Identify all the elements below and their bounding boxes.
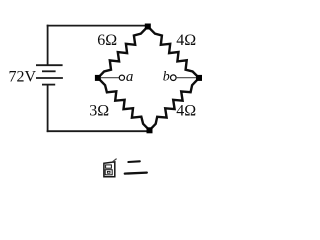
wire left lower [47, 85, 49, 133]
resistor 6ohm top-left [98, 27, 148, 78]
wire to terminal a [101, 77, 119, 79]
wire top [47, 25, 148, 27]
resistor 4ohm top-right [148, 27, 199, 78]
battery 72V [36, 65, 63, 84]
terminal b circle [171, 75, 177, 81]
terminal a circle [119, 75, 124, 80]
node right [196, 75, 202, 81]
wire left upper [47, 25, 49, 65]
svg-text:6Ω: 6Ω [97, 32, 117, 49]
node top [145, 24, 151, 30]
caption glyph er (two) [125, 161, 147, 173]
svg-text:a: a [126, 69, 133, 85]
svg-text:72V: 72V [9, 68, 37, 85]
svg-text:4Ω: 4Ω [176, 32, 196, 49]
svg-text:4Ω: 4Ω [176, 102, 196, 119]
resistor 3ohm bottom-left [98, 78, 150, 130]
node bottom [147, 127, 153, 133]
resistor 4ohm bottom-right [150, 78, 200, 130]
wire to terminal b [176, 77, 196, 79]
caption glyph tu (figure) [104, 159, 117, 177]
wire bottom [47, 130, 150, 132]
node left [95, 75, 101, 81]
svg-text:b: b [163, 69, 170, 84]
svg-text:3Ω: 3Ω [89, 102, 109, 119]
